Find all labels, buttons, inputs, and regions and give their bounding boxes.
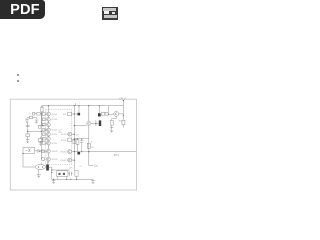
transistor Q6 <box>46 137 50 141</box>
transistor QR4 <box>68 150 72 154</box>
transistor Q1 <box>46 112 50 116</box>
svg-text:-35 V: -35 V <box>113 153 120 157</box>
wire R14 bottom stub <box>122 125 124 128</box>
wire VR1 top <box>47 161 49 164</box>
diode D2 dark <box>98 113 101 116</box>
wire E1 top <box>40 162 42 164</box>
resistor RL5 <box>42 133 45 136</box>
resistor R16 <box>73 140 76 144</box>
svg-text:BC556: BC556 <box>61 134 67 136</box>
wire Q11 drop <box>88 106 90 122</box>
wire QR2 right <box>72 133 75 135</box>
resistor RL9 <box>42 158 45 161</box>
capacitor C5 <box>38 149 39 152</box>
wire D1 top feed <box>78 106 80 113</box>
transistor Q9 <box>46 157 50 161</box>
wire Q11 collector down <box>88 126 90 166</box>
E1 internals <box>38 166 43 168</box>
ground G6 <box>91 179 95 180</box>
transistor Q12 <box>114 111 119 116</box>
capacitor C6 <box>68 172 73 176</box>
wire R15 down <box>111 125 113 127</box>
transistor Q2 <box>46 117 50 121</box>
ground G2a <box>26 139 30 141</box>
transistor Q4 <box>46 128 50 132</box>
transistor Q11 <box>87 121 91 125</box>
wire C4 link <box>96 122 99 124</box>
wire E1 bottom <box>38 169 40 174</box>
schematic border frame <box>10 99 136 190</box>
wire C2 down <box>27 137 29 140</box>
wire mid bus <box>74 138 89 140</box>
svg-text:BC546: BC546 <box>52 119 58 121</box>
ground G2b <box>39 141 43 143</box>
wire Q11 base <box>74 125 86 127</box>
resistor R18 <box>87 143 90 148</box>
svg-text:0R1: 0R1 <box>119 120 122 122</box>
wire VR1 right <box>49 166 52 168</box>
wire QR4 row rail <box>72 151 137 153</box>
transistor QR2 <box>68 132 72 136</box>
wire QR1 right <box>72 113 75 115</box>
wire Q12 right <box>119 113 124 115</box>
resistor RL4 <box>42 129 45 132</box>
diode D3 dark <box>77 152 80 155</box>
svg-text:10R: 10R <box>69 168 73 170</box>
wire +V frame tap <box>122 101 124 121</box>
transistor Q8 <box>46 149 50 153</box>
wire R6 leads <box>40 137 42 143</box>
resistor R17 <box>76 140 79 145</box>
wire R4 <box>27 118 37 120</box>
capacitor C4 dark <box>99 120 101 126</box>
transistor QR5 <box>68 158 72 162</box>
wire right column vertical <box>73 106 75 171</box>
ground G3 <box>37 173 41 175</box>
svg-text:2N5551: 2N5551 <box>52 159 58 161</box>
svg-text:BC546: BC546 <box>52 114 58 116</box>
wire B2 legs <box>58 177 67 180</box>
box B1 <box>23 148 35 154</box>
resistor R12 <box>102 112 105 115</box>
box B1 internals <box>26 149 31 152</box>
dual transistor E1 <box>35 165 46 170</box>
transistor Q3 <box>46 123 50 127</box>
stub above rail <box>74 103 76 106</box>
box B2 internals <box>58 173 60 175</box>
resistor R4 <box>29 116 32 119</box>
wire +V rail <box>42 105 124 107</box>
dashed array box U1 <box>46 109 72 164</box>
svg-text:BD139: BD139 <box>61 140 67 142</box>
capacitor C7 <box>80 139 83 152</box>
resistor R5 <box>38 126 41 128</box>
resistor RL1 <box>42 113 45 116</box>
wire bias tap <box>38 125 42 127</box>
resistor RL8 <box>42 150 45 153</box>
transistor QR1 square <box>68 112 72 116</box>
svg-text:+35 V: +35 V <box>119 96 126 100</box>
svg-text:Out: Out <box>94 164 98 167</box>
resistor R6 <box>38 139 43 142</box>
wire out <box>89 165 94 167</box>
wire Q11 right <box>91 120 96 126</box>
wire D2 right <box>100 113 103 115</box>
ground G1 <box>25 119 29 121</box>
box B2 <box>57 171 68 177</box>
transistor QR3 square <box>68 138 72 142</box>
svg-text:22k: 22k <box>91 147 94 149</box>
wire C5 right <box>39 150 47 152</box>
resistor R20 <box>75 171 78 177</box>
resistor RL2 <box>42 118 45 121</box>
wire D1 link <box>74 113 77 115</box>
junction dots <box>22 100 124 180</box>
wire rail end drop <box>108 106 110 113</box>
resistor RL7 <box>42 142 45 145</box>
wire R13 right <box>108 113 114 115</box>
resistor R15 <box>110 120 113 125</box>
svg-text:C9: C9 <box>79 166 81 168</box>
wire bottom bus <box>52 178 93 180</box>
svg-text:BC546: BC546 <box>52 134 58 136</box>
wire R2-R3 <box>35 113 37 115</box>
resistor R14 <box>122 120 125 124</box>
ground G1b <box>35 119 39 121</box>
resistor R13 <box>105 112 108 115</box>
resistor RL3 <box>42 123 45 126</box>
wire QR3 right <box>72 139 75 141</box>
svg-text:In: In <box>29 114 31 116</box>
svg-text:1k: 1k <box>91 142 93 144</box>
wire Q12 emitter <box>112 116 117 120</box>
svg-text:BC546: BC546 <box>52 130 58 132</box>
resistor RL6 <box>42 137 45 140</box>
wire D2 drop <box>98 106 100 114</box>
wire upper bottom link <box>52 169 70 171</box>
resistor R3 <box>37 112 41 115</box>
transistor Q7 <box>46 141 50 145</box>
wire input tap <box>28 130 47 131</box>
transistor Q5 <box>46 132 50 136</box>
capacitor C2 <box>26 134 30 137</box>
wire VR1 drop <box>51 167 53 179</box>
ground arrow G4 <box>110 127 114 132</box>
svg-text:2N5551: 2N5551 <box>52 151 58 153</box>
capacitor C1 <box>26 125 30 126</box>
wire B1 right <box>35 150 38 152</box>
svg-text:4k7: 4k7 <box>76 134 79 136</box>
svg-text:BC546: BC546 <box>52 143 58 145</box>
trimpot VR1 dark <box>46 165 49 171</box>
wire R1 leads <box>41 112 43 126</box>
wire feed vertical <box>40 112 42 159</box>
svg-text:2N5401: 2N5401 <box>60 151 66 153</box>
wire input vertical <box>27 123 29 134</box>
resistor R2 <box>32 112 34 115</box>
svg-text:MJE: MJE <box>63 114 67 116</box>
wire QR5 right <box>72 159 75 161</box>
wire R20 down <box>76 176 78 179</box>
resistor R1 <box>41 107 43 111</box>
svg-text:2N5401: 2N5401 <box>60 160 66 162</box>
diode D1 dark <box>78 113 81 116</box>
wire R3 right <box>40 113 42 115</box>
ground G5 <box>52 179 56 180</box>
wire left column chain <box>47 106 49 164</box>
wire B1 down to ellipse <box>23 154 35 168</box>
wire R17 leads <box>77 139 79 152</box>
